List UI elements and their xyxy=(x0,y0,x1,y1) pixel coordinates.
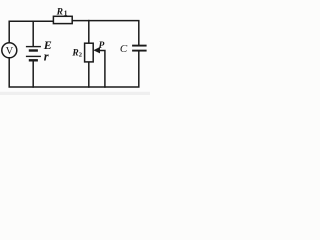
wire battery-bottom drop xyxy=(32,61,34,87)
battery E plate long top xyxy=(26,46,41,48)
svg-text:V: V xyxy=(6,46,14,57)
svg-text:r: r xyxy=(44,49,49,63)
battery E plate short bottom xyxy=(29,59,38,61)
svg-text:C: C xyxy=(120,43,128,55)
voltmeter V1 circle xyxy=(2,43,17,58)
svg-text:R1: R1 xyxy=(56,8,68,18)
node battery-top / wire battery drop xyxy=(32,21,34,46)
wire top-left (corner to R1) xyxy=(9,21,53,43)
resistor R1 box xyxy=(53,16,72,23)
battery E plate long bottom xyxy=(26,55,41,57)
capacitor C plate bottom xyxy=(132,50,147,52)
battery E plate short top xyxy=(29,49,38,51)
wiper P arrowhead xyxy=(93,47,100,53)
wire pot-bottom drop xyxy=(88,62,90,87)
wiper P wire horizontal then down to bottom rail xyxy=(99,51,105,88)
capacitor C plate top xyxy=(132,45,147,47)
potentiometer R2 box xyxy=(85,43,94,62)
wire bottom (full bottom rail) xyxy=(9,51,139,87)
svg-text:P: P xyxy=(99,41,105,51)
node pot-top / wire pot drop xyxy=(88,21,90,44)
scan smudge bottom edge xyxy=(0,92,150,95)
wire top-right (R1 to right corner, down to capacitor) xyxy=(72,21,139,46)
background xyxy=(0,0,150,95)
